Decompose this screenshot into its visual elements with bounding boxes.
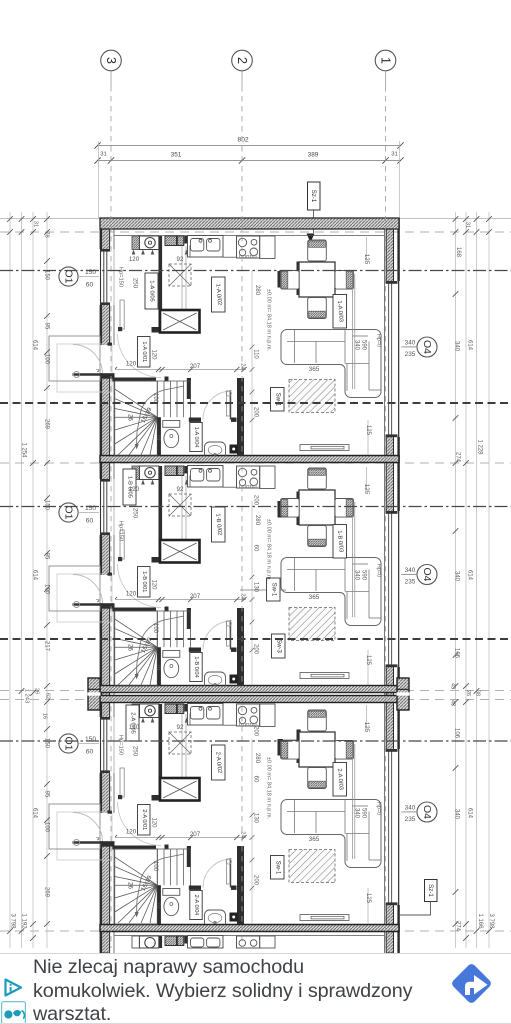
unit 1-A: black duct box in bathroom xyxy=(230,445,239,454)
unit 2-A: masonry shaft with X xyxy=(160,778,200,801)
svg-text:26: 26 xyxy=(127,644,133,651)
svg-text:106: 106 xyxy=(454,648,460,659)
entrance door swing arc xyxy=(73,575,103,605)
svg-text:26: 26 xyxy=(127,882,133,889)
unit 1-A: dimension leader 125 top xyxy=(366,237,368,262)
unit 2-A: corridor radiator xyxy=(227,859,230,884)
room label 1-B 0/03 xyxy=(333,525,347,559)
entrance door opening in left wall xyxy=(99,575,115,604)
partial unit: washer xyxy=(140,936,159,948)
svg-text:Sw-1: Sw-1 xyxy=(270,583,276,597)
window glass lines xyxy=(103,252,105,303)
door jambs xyxy=(101,603,115,609)
svg-text:269: 269 xyxy=(44,419,50,430)
svg-text:Hp=0: Hp=0 xyxy=(376,802,382,816)
entrance platform outside xyxy=(57,344,112,392)
svg-text:200: 200 xyxy=(253,644,259,655)
room label 1-B 0/01 xyxy=(138,567,151,598)
unit 1-A: stair walk line with arrow xyxy=(137,386,185,446)
adchoices triangle icon xyxy=(3,977,24,998)
unit 1-A: kitchen-living wall stubs with niche xyxy=(278,271,284,288)
svg-text:269: 269 xyxy=(44,887,50,898)
svg-text:1 166: 1 166 xyxy=(477,913,483,929)
entrance platform outside xyxy=(57,812,112,860)
svg-text:120: 120 xyxy=(126,591,137,598)
window marker O1 unit 1-B xyxy=(59,503,78,522)
room label 2-A 0/01 xyxy=(138,805,151,836)
svg-text:614: 614 xyxy=(32,808,38,819)
unit 2-A: dimension leader line right of bathroom xyxy=(251,739,253,923)
svg-text:340: 340 xyxy=(454,571,460,582)
svg-text:590: 590 xyxy=(361,808,367,819)
construction grid: vertical dimension chain lines right xyxy=(455,212,457,948)
svg-text:120: 120 xyxy=(151,579,157,590)
svg-text:120: 120 xyxy=(151,817,157,828)
svg-text:Hp=150: Hp=150 xyxy=(118,735,124,755)
svg-text:±0.00 m= 84.18 m n.p.m.: ±0.00 m= 84.18 m n.p.m. xyxy=(266,757,272,820)
unit 1-B: small duct boxes at top wall xyxy=(165,466,177,476)
unit 1-A: stair enclosure walls xyxy=(112,378,156,382)
entrance door leaf xyxy=(73,603,103,606)
svg-text:340: 340 xyxy=(354,340,360,351)
svg-text:120: 120 xyxy=(126,829,137,836)
unit 2-A: small duct boxes at top wall xyxy=(165,704,177,714)
svg-text:365: 365 xyxy=(309,366,320,373)
axis line through unit living area dash-dot xyxy=(0,506,511,508)
window glass lines xyxy=(388,283,390,435)
unit 1-B: bathroom north wall and door jamb xyxy=(189,648,201,652)
svg-text:3 798: 3 798 xyxy=(488,913,494,929)
svg-text:1-A 0/01: 1-A 0/01 xyxy=(141,341,147,362)
room label 2-A 0/02 xyxy=(212,745,226,780)
unit 2-A: washing machine xyxy=(132,704,139,718)
svg-text:O1: O1 xyxy=(63,269,75,283)
window end caps xyxy=(386,511,398,514)
svg-text:130: 130 xyxy=(253,582,259,593)
unit 2-A: chair east xyxy=(335,741,354,760)
unit 2-A: bathroom west wall xyxy=(157,885,161,924)
svg-text:100: 100 xyxy=(44,822,50,833)
axis line A (top wall) dash-dot xyxy=(0,231,511,233)
unit 1-A: wall between hall and kitchen xyxy=(159,236,163,333)
party wall below unit 3 xyxy=(100,925,399,932)
svg-text:43: 43 xyxy=(450,683,456,689)
room label 2-A 0/05 xyxy=(126,705,139,741)
svg-text:614: 614 xyxy=(32,570,38,581)
window marker O4 unit 1-A xyxy=(417,337,437,357)
unit 1-B: counter segment xyxy=(260,466,275,489)
svg-text:207: 207 xyxy=(190,363,201,370)
svg-text:280: 280 xyxy=(254,285,261,296)
unit 2-A: wash basin xyxy=(205,910,226,924)
svg-text:125: 125 xyxy=(365,655,371,666)
right exterior wall hatched layer xyxy=(386,218,393,953)
unit 2-A: dimension line in hall xyxy=(96,837,246,839)
unit 2-A: dimension leader 125 bottom xyxy=(367,888,369,923)
svg-text:168: 168 xyxy=(455,247,461,258)
window O1 opening in left wall xyxy=(99,479,115,535)
unit 2-A: stove with burners xyxy=(237,704,260,726)
window marker O1 unit 1-A xyxy=(59,267,78,286)
partial unit: hall/kitchen wall xyxy=(159,936,163,948)
extension lines from building corners xyxy=(98,141,100,218)
svg-text:106: 106 xyxy=(454,728,460,739)
svg-text:120: 120 xyxy=(129,486,140,493)
svg-text:60: 60 xyxy=(253,545,259,552)
construction grid: vertical dimension chain lines left xyxy=(9,212,11,948)
svg-text:130: 130 xyxy=(253,813,259,824)
partial unit: interior face line xyxy=(115,935,385,937)
svg-text:2-A 0/01: 2-A 0/01 xyxy=(141,809,147,830)
svg-text:110: 110 xyxy=(253,349,259,359)
svg-text:1 228: 1 228 xyxy=(477,439,483,455)
svg-text:340: 340 xyxy=(454,341,460,352)
svg-text:Hp=0: Hp=0 xyxy=(376,334,382,348)
axis line party wall 1 dash-dot xyxy=(0,462,511,464)
axis line through unit living area dash-dot xyxy=(0,270,511,272)
svg-text:O4: O4 xyxy=(421,567,433,581)
window glass lines xyxy=(388,513,390,665)
grid bubble 3 xyxy=(101,50,122,71)
svg-text:590: 590 xyxy=(361,340,367,351)
svg-text:Sw-1: Sw-1 xyxy=(274,861,280,875)
door jambs xyxy=(101,841,115,847)
svg-text:200: 200 xyxy=(253,875,259,886)
left chain tick marks xyxy=(44,216,50,222)
unit 1-B: hall radiator under window xyxy=(120,530,124,559)
unit 1-B: wash basin xyxy=(205,672,226,686)
svg-text:Sw-1: Sw-1 xyxy=(274,393,280,407)
svg-text:125: 125 xyxy=(365,893,371,904)
svg-text:100: 100 xyxy=(152,623,158,634)
svg-text:3 798: 3 798 xyxy=(10,913,16,929)
partial unit: sink xyxy=(188,936,224,949)
unit 1-A: dimension line in hall xyxy=(96,369,246,371)
dimension line 31/351/389/31 xyxy=(98,160,401,162)
svg-text:100: 100 xyxy=(44,354,50,365)
svg-text:1 192: 1 192 xyxy=(21,913,27,929)
svg-text:125: 125 xyxy=(363,484,370,495)
svg-text:±0.00 m= 84.18 m n.p.m.: ±0.00 m= 84.18 m n.p.m. xyxy=(266,519,272,582)
room label 1-A 0/01 xyxy=(138,337,151,368)
blue diamond arrow logo xyxy=(443,955,500,1012)
svg-text:31: 31 xyxy=(391,152,398,158)
unit 1-A: corner sofa xyxy=(281,330,381,398)
svg-text:Sw-3: Sw-3 xyxy=(275,639,281,653)
window O4 large opening in right wall xyxy=(385,511,400,667)
unit 1-B: radiator under right window xyxy=(300,673,349,679)
svg-text:351: 351 xyxy=(171,152,182,159)
unit 1-A: bathroom door leaf and arc xyxy=(230,390,232,420)
unit 1-A: toilet xyxy=(163,421,180,428)
unit 1-B: hall door swing arc xyxy=(118,564,162,608)
svg-text:120: 120 xyxy=(129,256,140,263)
svg-text:1-A 0/04: 1-A 0/04 xyxy=(193,427,199,448)
unit 1-B: bathroom west wall xyxy=(157,647,161,686)
top exterior wall hatched xyxy=(100,218,399,229)
top wall interior face line xyxy=(115,235,385,237)
svg-text:24: 24 xyxy=(240,831,246,838)
unit 2-A: wall between hall and kitchen xyxy=(159,704,163,801)
grid line 2 dashed vertical xyxy=(241,86,243,948)
unit 1-A: chair south xyxy=(308,298,327,319)
grid bubble 1 xyxy=(375,50,396,71)
svg-text:235: 235 xyxy=(405,816,416,823)
unit 2-A: kitchen-living wall stubs with niche xyxy=(278,739,284,756)
window marker O1 unit 2-A xyxy=(59,734,78,753)
unit 1-B: dimension leader 125 top xyxy=(366,467,368,492)
window O1 opening in left wall xyxy=(99,717,115,773)
svg-text:150: 150 xyxy=(85,736,96,743)
axis lines building joint dash-dot xyxy=(0,690,511,692)
svg-text:Sz-1: Sz-1 xyxy=(310,190,317,203)
unit 2-A: bathroom north wall and door jamb xyxy=(189,886,201,890)
svg-text:Hp=0: Hp=0 xyxy=(376,564,382,578)
unit 1-A: rug hatched with dashed border xyxy=(289,380,335,413)
svg-text:60: 60 xyxy=(86,749,94,756)
axis line through unit living area dash-dot xyxy=(0,740,511,742)
unit 2-A: stair walk line with arrow xyxy=(137,854,185,914)
svg-text:340: 340 xyxy=(405,567,416,574)
unit 1-A: counter segment xyxy=(260,236,275,259)
svg-text:389: 389 xyxy=(308,152,319,159)
svg-text:95: 95 xyxy=(44,323,50,330)
svg-text:88: 88 xyxy=(475,690,481,696)
svg-text:340: 340 xyxy=(405,340,416,347)
svg-text:200: 200 xyxy=(253,726,259,737)
svg-text:31: 31 xyxy=(100,152,107,158)
unit 1-B: small dimension arrows under counter xyxy=(132,480,136,485)
unit 1-B: winder stairs xyxy=(115,611,158,686)
svg-text:590: 590 xyxy=(361,570,367,581)
window O1 opening in left wall xyxy=(99,249,115,305)
unit 1-A: dining table xyxy=(299,262,335,297)
unit 2-A: toilet xyxy=(163,889,180,896)
svg-text:2: 2 xyxy=(235,57,249,64)
unit 1-A: bathroom east wall xyxy=(237,378,244,456)
room label 2-A 0/03 xyxy=(333,763,347,797)
svg-text:280: 280 xyxy=(254,753,261,764)
svg-text:280: 280 xyxy=(254,515,261,526)
right wall inner face line xyxy=(384,218,386,953)
room label 1-B 0/04 xyxy=(190,653,202,682)
unit 1-B: dashed future shaft with X xyxy=(169,494,191,516)
svg-text:200: 200 xyxy=(253,495,259,506)
window O4 large opening in right wall xyxy=(385,281,400,437)
joint protrusion left xyxy=(88,678,100,710)
unit 1-B: duct riser lines xyxy=(181,476,183,539)
unit 1-A: dimension leader 125 bottom xyxy=(367,420,369,455)
window glass lines xyxy=(103,720,105,771)
svg-text:250: 250 xyxy=(132,746,139,757)
left wall outer black line xyxy=(100,218,102,953)
unit 1-B: chair south xyxy=(308,526,327,547)
window end caps xyxy=(101,249,111,252)
right chain tick marks xyxy=(453,216,459,222)
mute ad icon xyxy=(1,1001,26,1024)
svg-text:60: 60 xyxy=(86,282,94,289)
unit 1-B: stair walk line with arrow xyxy=(137,616,185,676)
unit 1-B: dining table xyxy=(299,490,335,525)
unit 1-B: chair east xyxy=(335,499,354,518)
banner bottom hairline xyxy=(0,1023,511,1024)
window end caps xyxy=(101,717,111,720)
svg-text:92: 92 xyxy=(177,724,184,731)
svg-text:O1: O1 xyxy=(63,736,75,750)
entrance platform outside xyxy=(57,574,112,622)
room label 1-A 0/04 xyxy=(190,423,202,452)
unit 2-A: winder stairs xyxy=(115,849,158,924)
window O4 large opening in right wall xyxy=(385,749,400,905)
unit 1-B: dimension leader 125 bottom xyxy=(367,650,369,685)
grid bubble 2 xyxy=(232,50,253,71)
building joint double wall xyxy=(100,686,399,693)
svg-text:125: 125 xyxy=(365,425,371,436)
window end caps xyxy=(386,749,398,752)
label Sz-1 top with leader xyxy=(308,182,321,210)
svg-text:95: 95 xyxy=(44,791,50,798)
entrance door opening in left wall xyxy=(99,345,115,374)
unit 1-A: hall radiator under window xyxy=(120,300,124,329)
svg-text:24: 24 xyxy=(240,363,246,370)
svg-text:207: 207 xyxy=(190,831,201,838)
svg-text:1 243: 1 243 xyxy=(24,689,30,704)
room label 1-A 0/02 xyxy=(212,277,226,312)
svg-text:24: 24 xyxy=(240,593,246,600)
unit 1-B: dimension leader line right of bathroom xyxy=(251,501,253,685)
unit 2-A: stair enclosure walls xyxy=(112,846,156,850)
svg-text:70: 70 xyxy=(155,434,161,440)
entrance door leaf xyxy=(73,373,103,376)
unit 1-A: masonry shaft with X xyxy=(160,310,200,333)
svg-text:60: 60 xyxy=(253,776,259,783)
unit 1-B: washing machine xyxy=(132,466,139,480)
unit 1-A: wash basin xyxy=(205,442,226,456)
unit 1-B: stove with burners xyxy=(237,466,260,488)
unit 1-B: black duct box in bathroom xyxy=(230,675,239,684)
unit 1-B: chair west xyxy=(281,499,300,518)
unit 1-B: rug hatched with dashed border xyxy=(289,608,335,641)
unit 2-A: bathroom door leaf and arc xyxy=(230,858,232,888)
unit 1-B: toilet xyxy=(163,651,180,658)
unit 2-A: rug hatched with dashed border xyxy=(289,850,335,883)
heavy dashed axis xyxy=(0,638,511,640)
left exterior wall hatched xyxy=(102,218,110,953)
unit 1-B: bathroom door leaf and arc xyxy=(230,620,232,650)
svg-text:1-A 0/05: 1-A 0/05 xyxy=(149,280,155,302)
svg-text:31: 31 xyxy=(33,221,39,227)
svg-text:250: 250 xyxy=(132,508,139,519)
unit 1-B: stair enclosure walls xyxy=(112,608,156,612)
svg-text:70: 70 xyxy=(155,902,161,908)
unit 1-A: radiator under right window xyxy=(300,445,349,451)
label Sw rug xyxy=(271,856,285,880)
svg-text:614: 614 xyxy=(467,340,473,351)
unit 1-A: dimension leader line right of bathroom xyxy=(251,271,253,455)
unit 1-A: chair north xyxy=(308,240,327,261)
left wall inner face line xyxy=(113,218,115,953)
svg-text:3: 3 xyxy=(104,57,118,64)
svg-text:120: 120 xyxy=(126,361,137,368)
unit 2-A: corner sofa xyxy=(281,800,381,868)
entrance door leaf xyxy=(73,841,103,844)
unit 1-B: bathroom east wall xyxy=(237,608,244,686)
unit 2-A: dashed future shaft with X xyxy=(169,732,191,754)
label Sz-1 right with leader xyxy=(425,880,438,902)
svg-text:340: 340 xyxy=(354,808,360,819)
axis line party wall bottom dash-dot xyxy=(0,930,511,932)
room label 1-B 0/02 xyxy=(212,507,226,542)
joint protrusion right xyxy=(397,678,409,710)
svg-text:26: 26 xyxy=(127,414,133,421)
window glass lines xyxy=(103,482,105,533)
window marker O4 unit 2-A xyxy=(417,802,437,822)
unit 1-A: bathroom north wall and door jamb xyxy=(189,418,201,422)
svg-text:150: 150 xyxy=(44,738,50,749)
unit 2-A: counter segment xyxy=(260,704,275,727)
svg-text:O4: O4 xyxy=(421,805,433,819)
svg-text:O4: O4 xyxy=(421,340,433,354)
svg-text:614: 614 xyxy=(32,340,38,351)
partial unit: stove xyxy=(237,936,260,948)
svg-text:200: 200 xyxy=(253,407,259,418)
svg-text:O1: O1 xyxy=(63,505,75,519)
partial unit: counter xyxy=(260,936,275,948)
unit 1-B: corridor radiator xyxy=(227,621,230,646)
room label 1-A 0/03 xyxy=(333,295,347,329)
unit 1-B: masonry shaft with X xyxy=(160,540,200,563)
right wall outer black line xyxy=(397,218,399,953)
unit 1-A: corridor radiator xyxy=(227,391,230,416)
svg-text:120: 120 xyxy=(151,349,157,360)
svg-text:70: 70 xyxy=(155,664,161,670)
svg-text:1-B 0/04: 1-B 0/04 xyxy=(193,656,199,677)
unit 1-A: small dimension arrows under counter xyxy=(132,250,136,255)
svg-text:125: 125 xyxy=(363,254,370,265)
svg-text:235: 235 xyxy=(405,579,416,586)
svg-text:125: 125 xyxy=(363,722,370,733)
unit 1-A: chair west xyxy=(281,271,300,290)
ad banner container xyxy=(0,953,511,1024)
room label 1-A 0/05 xyxy=(145,273,158,309)
label Sw rug xyxy=(271,388,285,412)
svg-text:1-B 0/01: 1-B 0/01 xyxy=(141,571,147,592)
unit 1-A: dashed future shaft with X xyxy=(169,264,191,286)
entrance door swing arc xyxy=(73,345,103,375)
svg-text:Hp=150: Hp=150 xyxy=(118,521,124,541)
svg-text:365: 365 xyxy=(309,836,320,843)
svg-text:250: 250 xyxy=(132,278,139,289)
dimension line 802 overall xyxy=(98,145,401,147)
svg-text:614: 614 xyxy=(467,808,473,819)
svg-text:±0.00 m= 84.18 m n.p.m.: ±0.00 m= 84.18 m n.p.m. xyxy=(266,289,272,352)
party wall between units 1 and 2 xyxy=(100,456,399,463)
unit 2-A: dimension leader 125 top xyxy=(366,705,368,730)
unit 2-A: radiator under right window xyxy=(300,915,349,921)
unit 1-A: washing machine xyxy=(132,236,139,250)
unit 2-A: chair south xyxy=(308,768,327,789)
unit 2-A: black duct box in bathroom xyxy=(230,913,239,922)
unit 1-B: beam line xyxy=(352,502,354,617)
unit 1-B: corner sofa xyxy=(281,558,381,626)
svg-text:60: 60 xyxy=(86,518,94,525)
svg-text:235: 235 xyxy=(405,351,416,358)
unit 2-A: small dimension arrows under counter xyxy=(132,718,136,723)
svg-text:31: 31 xyxy=(465,222,471,228)
unit 2-A: dining table xyxy=(299,732,335,767)
unit 1-A: beam line xyxy=(352,274,354,389)
svg-text:1 254: 1 254 xyxy=(21,442,27,458)
